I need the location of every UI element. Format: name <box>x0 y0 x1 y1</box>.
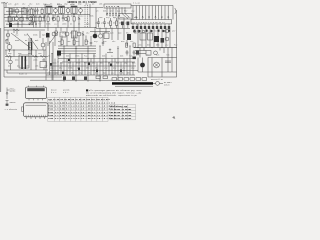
resistor R31 zigzag <box>6 55 12 57</box>
IF can F5 <box>59 6 65 13</box>
svg-text:S 1-12: S 1-12 <box>133 1 140 4</box>
electrolytic dark C7 <box>9 23 12 27</box>
capacitor C5 <box>36 8 38 15</box>
antenna A1 <box>5 2 8 8</box>
wire: partial bus y11.2 <box>6 10 24 12</box>
trimmer C37 <box>156 26 158 29</box>
svg-text:T87: T87 <box>154 30 157 33</box>
switch strip S2 <box>131 20 172 24</box>
svg-text:1k2: 1k2 <box>29 3 32 6</box>
wire verticals <box>6 50 44 70</box>
transistor T10 <box>77 32 81 36</box>
wire: section divider x45 <box>44 4 46 28</box>
wire: bus y30 <box>4 29 45 31</box>
capacitor C10 <box>35 21 37 28</box>
svg-text:L72: L72 <box>122 67 125 70</box>
dark cap C28 <box>127 22 130 26</box>
svg-text:1k2: 1k2 <box>85 3 88 6</box>
transistor T5 <box>79 9 83 13</box>
svg-text:100n: 100n <box>62 23 67 26</box>
resistor R3 <box>41 9 43 13</box>
svg-text:10µ: 10µ <box>131 67 134 70</box>
plug P2 <box>156 82 160 86</box>
wire: right border <box>176 10 178 58</box>
capacitor C27 <box>30 38 32 46</box>
svg-text:C29: C29 <box>43 3 46 6</box>
transistor T9 <box>65 32 69 36</box>
blob component <box>133 57 136 60</box>
wire grid below thick bus <box>135 48 172 58</box>
svg-text:10µ: 10µ <box>124 62 127 65</box>
capacitor C25 <box>103 18 106 28</box>
potentiometer P1 <box>107 49 113 53</box>
wire stubs IF strip <box>49 6 81 15</box>
svg-text:10µ: 10µ <box>79 72 82 75</box>
junction dots <box>9 7 163 81</box>
resistor R16 <box>57 17 59 21</box>
IF transformer F3 <box>31 16 36 22</box>
switch pin arrows <box>135 16 169 17</box>
resistor R57 <box>96 76 100 79</box>
trimmer C39 <box>164 26 166 29</box>
svg-text:D32: D32 <box>113 67 116 70</box>
resistor R26 <box>110 21 112 25</box>
jack socket J2 <box>165 37 169 41</box>
wire junctions top-left <box>9 8 42 15</box>
verticals upper-center <box>56 17 127 47</box>
transistor T7 dark <box>93 34 98 39</box>
svg-text:F12: F12 <box>174 44 177 47</box>
electrolytic dark C30 <box>46 33 50 38</box>
resistor R19 <box>73 17 75 21</box>
svg-text:4n7: 4n7 <box>110 10 113 13</box>
coil row under trimmers <box>133 30 135 32</box>
capacitor C15 <box>52 15 54 22</box>
capacitor C3 <box>27 8 29 15</box>
svg-text:33p: 33p <box>8 52 11 55</box>
svg-text:e b c: e b c <box>63 92 68 94</box>
resistor R32 zigzag <box>32 55 38 57</box>
transistor T4b <box>64 17 68 21</box>
svg-text:1k2: 1k2 <box>46 32 49 35</box>
svg-text:10µ: 10µ <box>131 10 134 13</box>
wire diagonal <box>122 14 129 20</box>
svg-text:10µ: 10µ <box>125 22 128 25</box>
dial cord diagonal <box>11 31 40 49</box>
svg-text:C2: C2 <box>111 55 113 58</box>
electrolytic C41 <box>9 60 13 64</box>
resistor R44 <box>85 40 87 44</box>
coil L2 <box>8 17 11 23</box>
resistor R5 <box>29 23 33 25</box>
svg-text:Widerstande 10% Kohleschicht.: Widerstande 10% Kohleschicht. Kapazitate… <box>86 95 137 97</box>
svg-text:T37: T37 <box>38 23 41 26</box>
blob component <box>57 51 61 56</box>
trimmer C35 <box>148 26 150 29</box>
svg-text:Masse: Masse <box>10 101 17 104</box>
svg-text:33p: 33p <box>113 22 116 25</box>
svg-text:2n2: 2n2 <box>94 32 97 35</box>
resistor R51 <box>112 78 117 81</box>
trimmer row under S2 <box>133 24 169 26</box>
capacitor C17 <box>62 15 64 22</box>
switch pins left group <box>107 7 125 13</box>
wires in power box <box>138 58 177 78</box>
svg-text:8k2: 8k2 <box>119 22 122 25</box>
jack socket J1 <box>165 29 169 33</box>
wire: y70.5 <box>50 70 138 72</box>
wire: third bus <box>5 20 46 22</box>
IF can F6 <box>71 6 77 13</box>
svg-text:L22: L22 <box>54 23 57 26</box>
svg-text:8k2: 8k2 <box>6 59 9 62</box>
capacitor C53 <box>126 50 129 56</box>
IF transformer F2 <box>29 9 34 15</box>
svg-text:8k2: 8k2 <box>71 72 74 75</box>
svg-text:10µ: 10µ <box>50 67 53 70</box>
svg-text:100n: 100n <box>26 14 31 17</box>
capacitor C23 <box>115 14 117 17</box>
svg-text:R52: R52 <box>126 32 129 35</box>
capacitor C2 <box>13 8 15 15</box>
wire: bus y70 <box>4 69 48 71</box>
wire: thick bus y47.5 <box>134 47 177 49</box>
capacitor C71 <box>165 61 171 62</box>
transistor T4 <box>66 9 70 13</box>
wire stubs bottom of schematic <box>64 80 100 81</box>
wire: bus y28.4 center <box>96 18 130 28</box>
svg-text:1k2: 1k2 <box>62 14 65 17</box>
svg-text:T106: T106 <box>48 117 54 120</box>
ratio detector D3 <box>82 31 84 38</box>
speaker LS1 <box>7 45 12 50</box>
svg-text:8k2: 8k2 <box>24 59 27 62</box>
svg-text:2 = Chassis: 2 = Chassis <box>5 108 17 111</box>
svg-text:2n2: 2n2 <box>15 34 18 37</box>
wire: y66 <box>50 65 136 67</box>
coil L1 <box>9 9 12 15</box>
table grid <box>48 97 108 121</box>
svg-text:100n: 100n <box>55 72 60 75</box>
svg-text:8k2: 8k2 <box>95 67 98 70</box>
resistor R58 <box>103 76 107 79</box>
svg-text:10µ: 10µ <box>95 22 98 25</box>
svg-text:6xR20: 6xR20 <box>164 85 169 87</box>
wire: bus y50 <box>5 49 46 51</box>
trimmer C36 <box>152 26 154 29</box>
capacitor C24 <box>97 18 100 28</box>
trimmer C33 <box>140 26 142 29</box>
diode D2 <box>78 15 80 21</box>
resistor R54 <box>130 78 135 81</box>
wire: y80 <box>30 79 120 81</box>
svg-text:F2: F2 <box>28 6 30 8</box>
extra verticals lower center <box>55 59 133 76</box>
capacitor C21 <box>109 14 111 17</box>
blob component <box>127 34 131 40</box>
mixer transistor T13 <box>6 33 10 37</box>
resistor R53 <box>124 78 129 81</box>
svg-text:D79: D79 <box>103 40 106 43</box>
svg-text:100n: 100n <box>52 62 57 65</box>
dark cap C62 <box>72 77 75 80</box>
dark cap C61 <box>63 77 66 80</box>
box module B3 <box>140 33 146 40</box>
pilot lamp LP1 <box>154 62 160 68</box>
svg-text:10µ: 10µ <box>64 3 67 6</box>
legend symbol: ground plate <box>6 101 9 107</box>
svg-text:8k2: 8k2 <box>59 67 62 70</box>
mark row 2 under trimmers <box>134 30 171 32</box>
resistor R55 <box>136 78 141 81</box>
wire stubs <box>48 15 79 28</box>
svg-text:1k2: 1k2 <box>44 14 47 17</box>
svg-text:F19: F19 <box>84 55 87 58</box>
svg-text:4n7: 4n7 <box>44 65 47 68</box>
svg-text:1k2: 1k2 <box>112 40 115 43</box>
wire: bottom border <box>4 76 62 78</box>
wire stubs left <box>8 30 17 45</box>
wire: bottom bus of tuner <box>4 27 96 29</box>
resistor R7 <box>21 17 23 21</box>
svg-text:33p: 33p <box>78 3 81 6</box>
resistor R18 <box>67 17 69 21</box>
gang capacitor dashed link <box>85 5 88 28</box>
dark speck row lower-center <box>50 59 122 74</box>
resistor R52 <box>118 78 123 81</box>
box module B4 <box>148 33 153 40</box>
power module box <box>148 58 177 78</box>
wire: bus y17.6 <box>4 17 45 19</box>
bracket <box>175 8 177 14</box>
trimmer C32 <box>136 26 138 29</box>
wire: partial bus y24.2 <box>6 23 30 25</box>
resistor R43 <box>73 40 75 44</box>
resistor R4 <box>13 17 15 21</box>
dark cap C63 <box>84 77 87 80</box>
box module B1 <box>40 62 47 68</box>
dial cord diagonal 2 <box>49 32 58 44</box>
transistor T11 <box>140 63 145 68</box>
trimmer C40 <box>168 26 170 29</box>
legend symbol: arrow test point <box>6 88 10 100</box>
svg-text:1k2: 1k2 <box>22 3 25 6</box>
capacitor C22 <box>112 14 114 17</box>
capacitor C4 <box>34 8 36 15</box>
circle component <box>154 51 158 55</box>
svg-text:100n: 100n <box>33 59 38 62</box>
box module B2 <box>104 33 109 39</box>
wire: vertical to switch box <box>90 4 96 28</box>
switch pins right group <box>133 6 168 20</box>
resistor R56 <box>142 78 147 81</box>
capacitor C9 <box>26 15 28 22</box>
svg-text:1k2: 1k2 <box>136 30 139 33</box>
output transformer TR2 <box>19 55 29 68</box>
wire: y58 <box>58 58 136 60</box>
resistor R45 <box>126 43 128 47</box>
svg-text:4n7: 4n7 <box>5 39 8 42</box>
trimmer C31 <box>132 26 134 29</box>
resistor R27 <box>116 21 118 25</box>
resistor R42 <box>61 40 63 44</box>
transistor T3 <box>54 9 58 13</box>
capacitor C52 <box>102 40 104 46</box>
svg-text:C12: C12 <box>6 23 9 26</box>
wire: left border <box>3 2 5 77</box>
transistor T6 <box>41 43 45 47</box>
box module B6 <box>60 32 66 37</box>
svg-text:47µ: 47µ <box>106 16 109 19</box>
svg-text:2n2: 2n2 <box>130 40 133 43</box>
IF can F9 <box>72 31 78 38</box>
resistor R46 <box>133 43 135 47</box>
diode D6 <box>118 14 120 18</box>
svg-text:D32: D32 <box>17 65 20 68</box>
capacitor C51 <box>90 40 92 46</box>
svg-text:2n2: 2n2 <box>165 44 168 47</box>
wire: second bus <box>4 14 90 16</box>
package outline IC1 top view <box>26 86 47 101</box>
verticals right <box>138 6 173 48</box>
resistor R15 <box>47 17 49 21</box>
resistor R21 zigzag <box>13 29 20 31</box>
svg-text:L12: L12 <box>111 72 114 75</box>
transistor T2b <box>19 17 23 21</box>
trimmer C38 <box>160 26 162 29</box>
svg-text:punkt: punkt <box>10 90 16 93</box>
svg-text:47µ: 47µ <box>94 40 97 43</box>
svg-text:2.2 0.75 7.8 1.4 0.3 4.3 1.60: 2.2 0.75 7.8 1.4 0.3 4.3 1.60 0.8 3.5 1.… <box>55 117 116 120</box>
switch strip S1 <box>104 4 131 8</box>
svg-text:b e c: b e c <box>51 92 56 94</box>
svg-text:4n7: 4n7 <box>101 22 104 25</box>
dark mark <box>136 51 139 55</box>
blob component <box>154 36 159 42</box>
wire: y75 <box>46 74 135 76</box>
IF transformer F1 <box>22 8 27 14</box>
svg-text:1 2 3 4 5 6 7 8 9 10 11 12: 1 2 3 4 5 6 7 8 9 10 11 12 <box>134 21 166 24</box>
verticals center <box>52 46 130 80</box>
transformer TR1 primary bars <box>28 42 29 50</box>
resistor R9 <box>39 17 41 21</box>
note paragraph <box>86 89 88 91</box>
IF can F4 <box>46 6 52 13</box>
left page-edge shadow <box>0 28 1 92</box>
capacitor C6 <box>43 15 45 22</box>
battery lead bar <box>112 82 153 85</box>
wire: bus y56.5 <box>5 56 48 58</box>
svg-text:2n2: 2n2 <box>62 32 65 35</box>
transformer TR1 secondary bars <box>31 42 32 50</box>
diode D5 <box>106 14 108 16</box>
box module B0 <box>119 14 132 20</box>
transistor T12 <box>52 32 56 36</box>
wire mesh upper-center stubs <box>48 28 83 47</box>
svg-text:1k2: 1k2 <box>86 32 89 35</box>
resistor R22 <box>6 40 8 44</box>
scattered value labels <box>5 3 177 75</box>
svg-text:F87: F87 <box>124 10 127 13</box>
capacitor C54 <box>133 50 136 56</box>
svg-text:4n7: 4n7 <box>172 30 175 33</box>
wire: multibus <box>46 32 110 81</box>
transistor T2c <box>29 17 33 21</box>
parts table <box>48 97 136 121</box>
svg-text:33p: 33p <box>134 16 137 19</box>
svg-text:2n2: 2n2 <box>71 3 74 6</box>
wire: y62 <box>62 61 135 63</box>
svg-text:L19: L19 <box>78 32 81 35</box>
transistor T3b <box>52 17 56 21</box>
transistor T2 <box>15 17 19 21</box>
wire: top bus <box>4 7 103 9</box>
package outline IC2 top view <box>22 103 49 119</box>
resistor R41 <box>55 31 57 35</box>
capacitor C8 <box>17 21 19 28</box>
svg-text:47µ: 47µ <box>104 67 107 70</box>
svg-text:Netzteil 9V: Netzteil 9V <box>151 79 164 81</box>
wire links <box>29 38 43 55</box>
transistor T8 <box>98 34 102 38</box>
blob component <box>161 38 165 43</box>
resistor R33 zigzag <box>40 55 46 57</box>
svg-text:2n2: 2n2 <box>17 14 20 17</box>
box module B5 <box>146 51 151 56</box>
wire: inner bottom line <box>7 70 58 73</box>
dark cap C26 <box>121 22 124 26</box>
transistor T1 <box>15 9 19 13</box>
trimmer C34 <box>144 26 146 29</box>
wire stubs <box>10 15 41 28</box>
svg-text:T52: T52 <box>57 55 60 58</box>
